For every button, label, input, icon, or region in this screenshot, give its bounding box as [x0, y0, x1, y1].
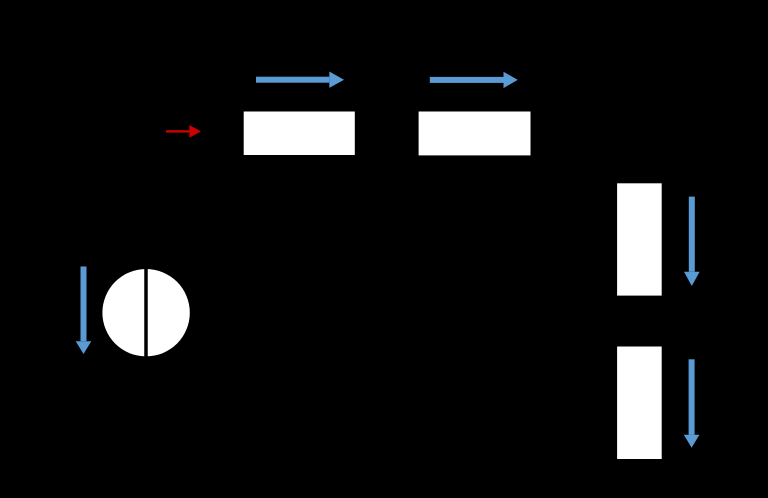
- input current arrow (red, pointing right at R1): [166, 125, 201, 138]
- voltage source V1: [102, 269, 189, 357]
- wire top rail to resistor R1: [146, 132, 243, 134]
- current arrow I2 (blue, above R2, pointing right): [430, 72, 518, 88]
- current arrow I3 (blue, left of source, pointing down): [76, 267, 92, 355]
- current arrow I5 (blue, right of R4, pointing down): [684, 359, 700, 447]
- resistor R1 (top left, horizontal): [244, 112, 355, 156]
- wire between R3 and R4: [638, 296, 640, 346]
- current arrow I1 (blue, above R1, pointing right): [256, 72, 344, 88]
- current arrow I4 (blue, right of R3, pointing down): [684, 197, 700, 286]
- wire R2 to top-right corner and down to R3: [531, 133, 639, 183]
- wire R4 bottom to bottom rail back to source: [146, 357, 639, 480]
- resistor R4 (right lower, vertical): [617, 347, 662, 460]
- resistor R2 (top right, horizontal): [419, 112, 531, 156]
- wire between R1 and R2: [355, 132, 419, 134]
- wire top-left vertical (source top to top rail): [145, 133, 147, 269]
- resistor R3 (right upper, vertical): [617, 183, 662, 295]
